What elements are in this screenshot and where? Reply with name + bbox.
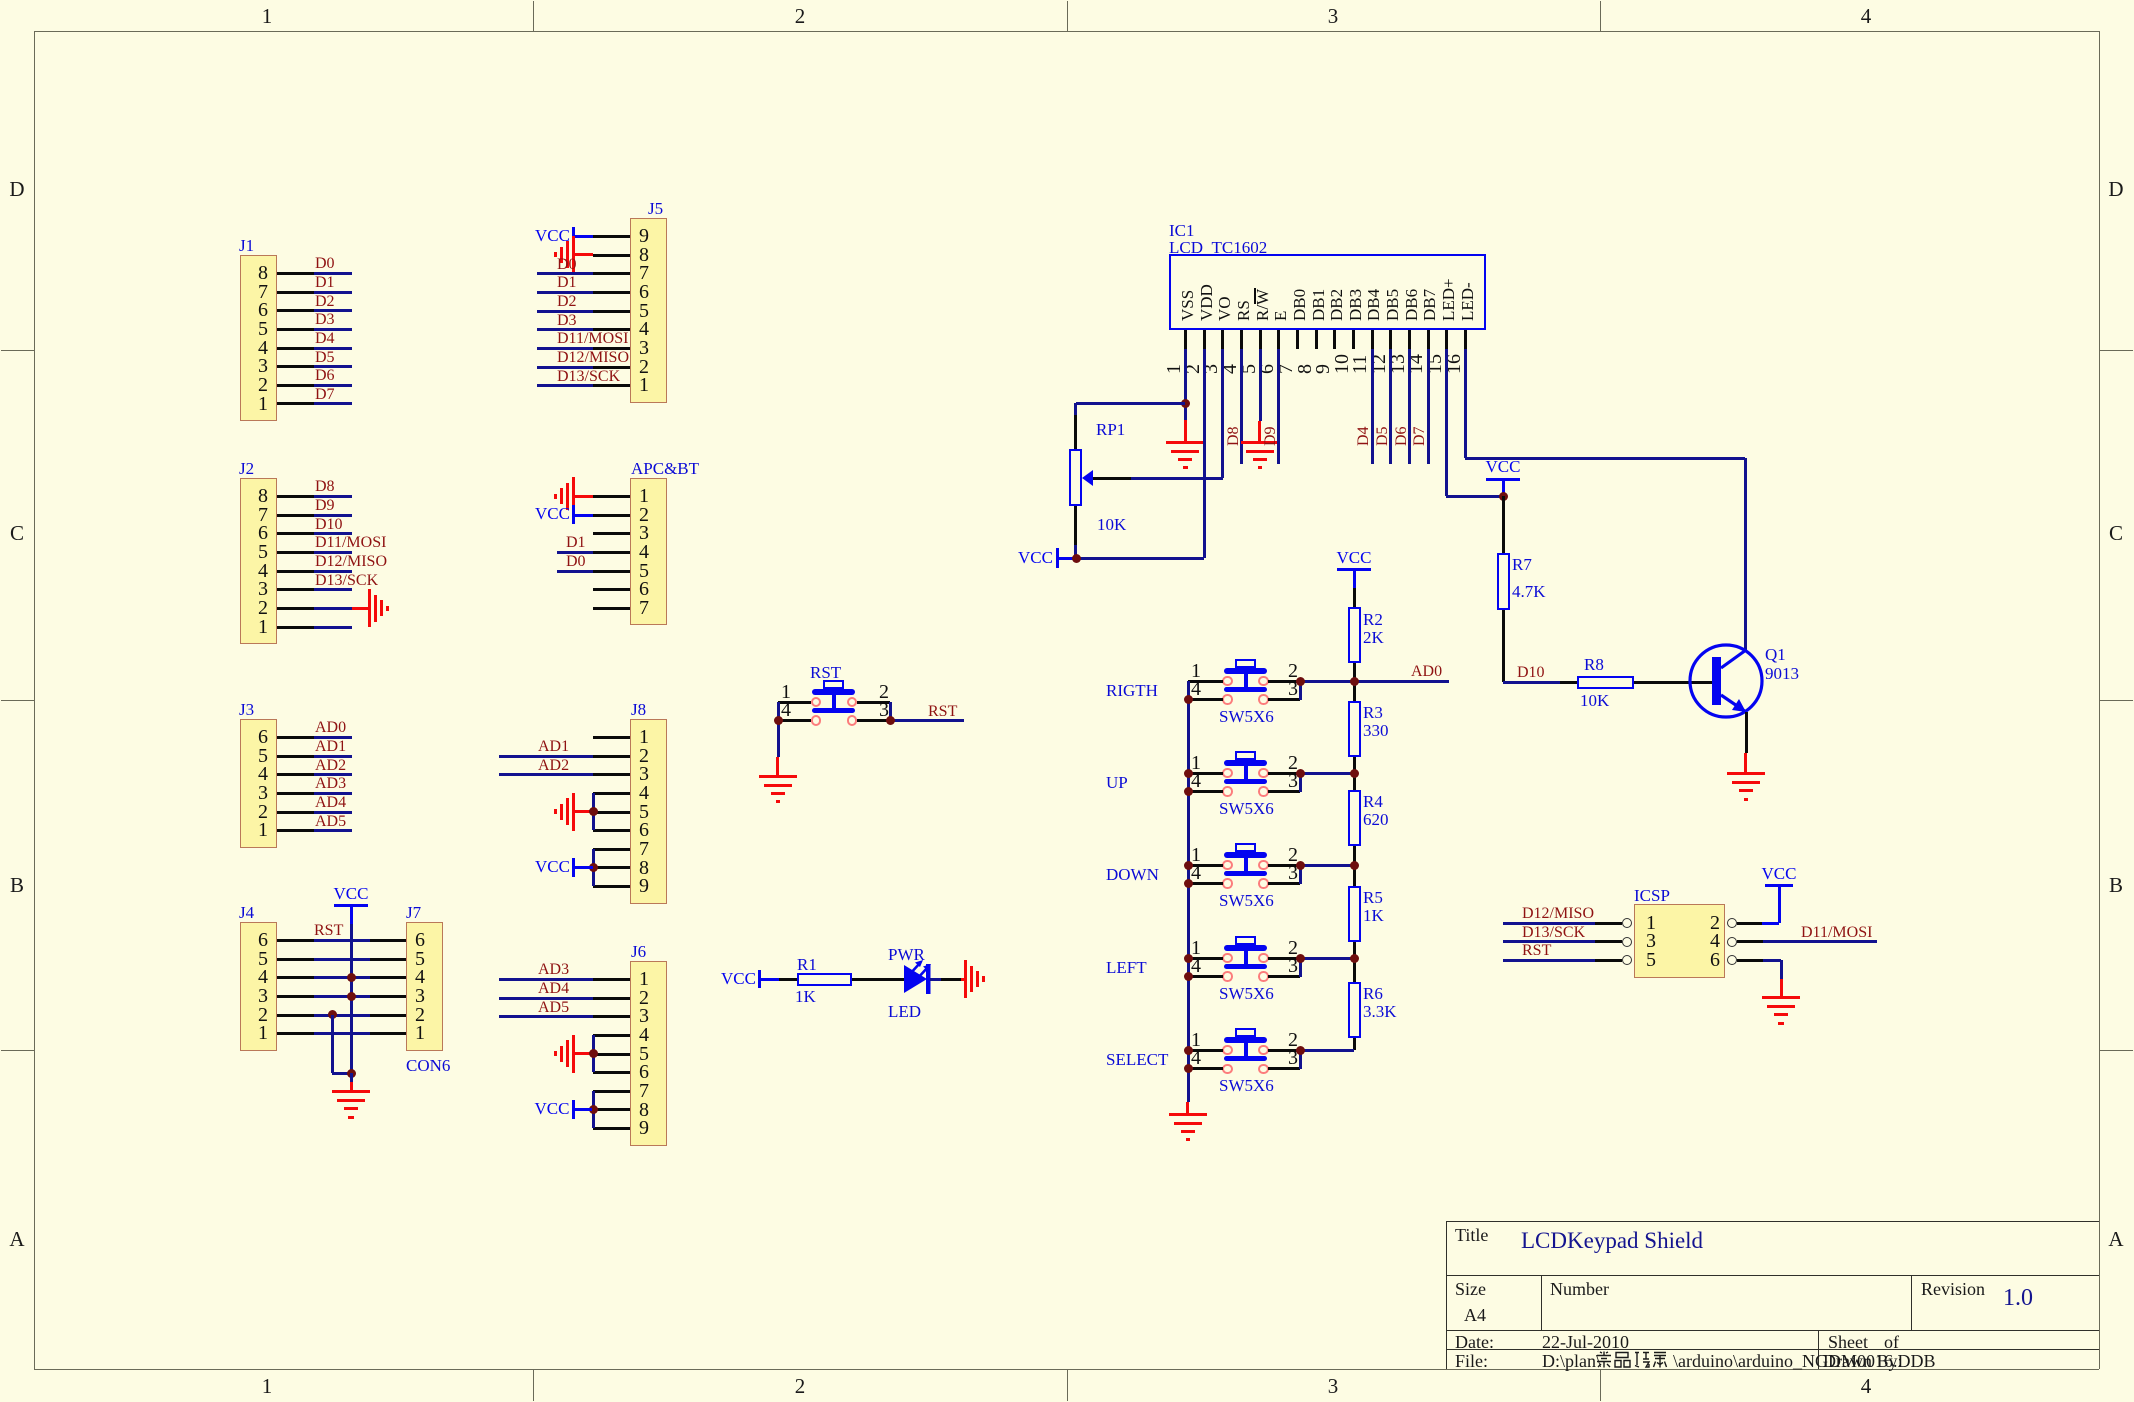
wire Q1 emitter to ground bbox=[0, 0, 1, 1]
junction (RST switch pin 4) bbox=[774, 716, 783, 725]
junction (left rail pin 4) bbox=[1184, 787, 1193, 796]
wire IC1 pin16 LED- to Q1 collector bbox=[0, 0, 1, 1]
junction (RIGTH pin 2) bbox=[1296, 677, 1305, 686]
wire LED to ground bbox=[0, 0, 1, 1]
wire net AD3 (J3 pin 3) bbox=[0, 0, 1, 1]
junction (left rail pin 1) bbox=[1184, 1046, 1193, 1055]
IC1 pin stubs bbox=[0, 0, 1, 1]
resistor R7 4.7K bbox=[0, 0, 1, 1]
pushbutton RST (SW5X6) bbox=[0, 0, 1, 1]
wire net D13/SCK (ICSP pin 3) bbox=[0, 0, 1, 1]
title block bbox=[0, 0, 1, 1]
power VCC (ICSP pin 2) bbox=[0, 0, 1, 1]
power VCC (RP1) bbox=[0, 0, 1, 1]
wire net AD4 (J6 pin 2) bbox=[0, 0, 1, 1]
junction (UP pin 2) bbox=[1296, 769, 1305, 778]
potentiometer RP1 10K bbox=[0, 0, 1, 1]
wire J8 pins 4-6 bracket to ground bbox=[0, 0, 1, 1]
wire net D2 (J1 pin 6) bbox=[0, 0, 1, 1]
junction (left rail pin 4) bbox=[1184, 879, 1193, 888]
connector APC&BT bbox=[0, 0, 1, 1]
wire RIGTH pins 1/4 to left rail bbox=[0, 0, 1, 1]
wire LEFT pins 2/3 to ladder bbox=[0, 0, 1, 1]
wire net D5 (J1 pin 3) bbox=[0, 0, 1, 1]
wire VCC rail vertical bbox=[0, 0, 1, 1]
wire net AD5 (J3 pin 1) bbox=[0, 0, 1, 1]
wire net D3 (J5 pin 4) bbox=[0, 0, 1, 1]
wire IC1 pin5 R/W to ground bbox=[0, 0, 1, 1]
junction (VSS / RP1 top) bbox=[1181, 399, 1190, 408]
junction (ladder node AD0 R3) bbox=[1350, 677, 1359, 686]
wire APC&BT pin 3 stub bbox=[0, 0, 1, 1]
connector ICSP bbox=[0, 0, 1, 1]
wire rail to ground bbox=[0, 0, 1, 1]
wire net D12/MISO (ICSP pin 1) bbox=[0, 0, 1, 1]
connector J5 bbox=[0, 0, 1, 1]
junction (row 2 branch) bbox=[328, 1010, 337, 1019]
wire net D5 (IC1 pin12) bbox=[0, 0, 1, 1]
wire R6 lower stub bbox=[0, 0, 1, 1]
connector J4 bbox=[0, 0, 1, 1]
junction (left rail pin 1) bbox=[1184, 954, 1193, 963]
wire DOWN pins 2/3 to ladder bbox=[0, 0, 1, 1]
junction (left rail pin 4) bbox=[1184, 695, 1193, 704]
resistor R4 620 bbox=[0, 0, 1, 1]
power VCC (J4/J7 rail) bbox=[0, 0, 1, 1]
wire net AD3 (J6 pin 1) bbox=[0, 0, 1, 1]
wire net AD0 bbox=[0, 0, 1, 1]
junction (rail / row 3) bbox=[347, 992, 356, 1001]
wire UP pins 2/3 to ladder bbox=[0, 0, 1, 1]
wire net RST (switch pins 2/3) bbox=[0, 0, 1, 1]
wire net AD1 (J8 pin 2) bbox=[0, 0, 1, 1]
wire J5 pin 9 to VCC bbox=[0, 0, 1, 1]
power VCC (J8 pins 7-9) bbox=[0, 0, 1, 1]
junction (ladder node AD0 R6) bbox=[1350, 954, 1359, 963]
junction (rail / branch) bbox=[347, 1069, 356, 1078]
wire net D0 (J1 pin 8) bbox=[0, 0, 1, 1]
connector J8 bbox=[0, 0, 1, 1]
ground GND (IC1 pin1) bbox=[0, 0, 1, 1]
resistor R3 330 bbox=[0, 0, 1, 1]
junction (ladder node AD0 R4) bbox=[1350, 769, 1359, 778]
wire net D4 (J1 pin 4) bbox=[0, 0, 1, 1]
wire J2 pin 2 to ground bbox=[0, 0, 1, 1]
resistor R5 1K bbox=[0, 0, 1, 1]
wire J4 pin 1 to J7 pin 1 bbox=[0, 0, 1, 1]
wire net D13/SCK (J2 pin 3) bbox=[0, 0, 1, 1]
wire ICSP pin 6 to ground bbox=[0, 0, 1, 1]
wire net D11/MOSI (J5 pin 3) bbox=[0, 0, 1, 1]
junction (left rail pin 1) bbox=[1184, 861, 1193, 870]
wire net D11/MOSI (ICSP pin 4) bbox=[0, 0, 1, 1]
wire ICSP pin 2 to VCC bbox=[0, 0, 1, 1]
wire net D9 (J2 pin 7) bbox=[0, 0, 1, 1]
junction (left rail pin 4) bbox=[1184, 972, 1193, 981]
ground GND (APC&BT pin 1) bbox=[0, 0, 1, 1]
wire net AD2 (J3 pin 4) bbox=[0, 0, 1, 1]
wire J8 pins 7-9 bracket to VCC bbox=[0, 0, 1, 1]
power VCC (R7 / LED+) bbox=[0, 0, 1, 1]
wire net D7 (IC1 pin14) bbox=[0, 0, 1, 1]
wire J6 pins 4-6 bracket to ground bbox=[0, 0, 1, 1]
connector J1 bbox=[0, 0, 1, 1]
junction (LEFT pin 2) bbox=[1296, 954, 1305, 963]
resistor R2 2K bbox=[0, 0, 1, 1]
resistor R6 3.3K bbox=[0, 0, 1, 1]
wire keypad left rail to ground bbox=[0, 0, 1, 1]
wire net D10 (J2 pin 6) bbox=[0, 0, 1, 1]
transistor Q1 9013 (NPN) bbox=[1680, 635, 1800, 765]
wire net D0 (APC&BT pin 5) bbox=[0, 0, 1, 1]
wire net D12/MISO (J2 pin 4) bbox=[0, 0, 1, 1]
wire net D1 (J5 pin 6) bbox=[0, 0, 1, 1]
wire net D1 (J1 pin 7) bbox=[0, 0, 1, 1]
wire net D11/MOSI (J2 pin 5) bbox=[0, 0, 1, 1]
wire J2 pin 1 stub bbox=[0, 0, 1, 1]
wire net D6 (J1 pin 2) bbox=[0, 0, 1, 1]
wire R5 lower stub bbox=[0, 0, 1, 1]
power VCC (keypad ladder) bbox=[0, 0, 1, 1]
wire net D1 (APC&BT pin 4) bbox=[0, 0, 1, 1]
wire net D4 (IC1 pin11) bbox=[0, 0, 1, 1]
junction (J6 pin 5) bbox=[589, 1049, 598, 1058]
connector J7 bbox=[0, 0, 1, 1]
connector J6 bbox=[0, 0, 1, 1]
wire SELECT pins 2/3 to ladder bbox=[0, 0, 1, 1]
wire APC&BT pin 2 to VCC bbox=[0, 0, 1, 1]
junction (ladder node AD0 R5) bbox=[1350, 861, 1359, 870]
wire R3 lower stub bbox=[0, 0, 1, 1]
pushbutton SELECT (SW5X6) bbox=[0, 0, 1, 1]
ground GND (ICSP pin 6) bbox=[0, 0, 1, 1]
wire net AD4 (J3 pin 2) bbox=[0, 0, 1, 1]
wire RP1 top to VSS node bbox=[0, 0, 1, 1]
pushbutton DOWN (SW5X6) bbox=[0, 0, 1, 1]
wire J8 pin 1 stub bbox=[0, 0, 1, 1]
junction (left rail pin 1) bbox=[1184, 769, 1193, 778]
ground GND (J2 pin 2) bbox=[0, 0, 1, 1]
pushbutton RIGTH (SW5X6) bbox=[0, 0, 1, 1]
junction (RST net) bbox=[886, 716, 895, 725]
wire net D0 (J5 pin 7) bbox=[0, 0, 1, 1]
wire net D3 (J1 pin 5) bbox=[0, 0, 1, 1]
wire DOWN pins 1/4 to left rail bbox=[0, 0, 1, 1]
ground GND (Q1 emitter) bbox=[0, 0, 1, 1]
wire net D6 (IC1 pin13) bbox=[0, 0, 1, 1]
wire RP1 bottom to VCC bbox=[0, 0, 1, 1]
ground GND (J8 pins 4-6) bbox=[0, 0, 1, 1]
wire row2 branch down bbox=[0, 0, 1, 1]
wire APC&BT pin 7 stub bbox=[0, 0, 1, 1]
junction (J6 pin 8) bbox=[589, 1105, 598, 1114]
wire J5 pin 8 to ground bbox=[0, 0, 1, 1]
power VCC (R1) bbox=[0, 0, 1, 1]
LED PWR bbox=[870, 944, 960, 1014]
wire net AD2 (J8 pin 3) bbox=[0, 0, 1, 1]
wire J4 pin 6 to J7 pin 6 net RST bbox=[0, 0, 1, 1]
power VCC (J5 pin 9) bbox=[0, 0, 1, 1]
wire net D10 (R7 to R8) bbox=[0, 0, 1, 1]
wire RIGTH pins 2/3 to ladder bbox=[0, 0, 1, 1]
wire net AD0 (J3 pin 6) bbox=[0, 0, 1, 1]
ground GND (J6 pins 4-6) bbox=[0, 0, 1, 1]
wire APC&BT pin 6 stub bbox=[0, 0, 1, 1]
wire net D13/SCK (J5 pin 1) bbox=[0, 0, 1, 1]
label CON6 (J7) bbox=[0, 0, 1, 1]
power VCC (J6 pins 7-9) bbox=[0, 0, 1, 1]
wire net D7 (J1 pin 1) bbox=[0, 0, 1, 1]
junction (SELECT pin 2) bbox=[1296, 1046, 1305, 1055]
wire net D2 (J5 pin 5) bbox=[0, 0, 1, 1]
pushbutton LEFT (SW5X6) bbox=[0, 0, 1, 1]
wire net RST (ICSP pin 5) bbox=[0, 0, 1, 1]
wire R1 to LED bbox=[0, 0, 1, 1]
wire IC1 pin2 VDD to VCC rail bbox=[0, 0, 1, 1]
wire J4 pin 3 to J7 pin 3 bbox=[0, 0, 1, 1]
wire IC1 pin1 VSS to ground / RP1 bbox=[0, 0, 1, 1]
wire R8 to Q1 base bbox=[0, 0, 1, 1]
wire J4 pin 5 to J7 pin 5 bbox=[0, 0, 1, 1]
junction (left rail pin 4) bbox=[1184, 1064, 1193, 1073]
wire IC1 pin3 VO to RP1 wiper bbox=[0, 0, 1, 1]
connector J2 bbox=[0, 0, 1, 1]
resistor R8 10K bbox=[0, 0, 1, 1]
wire J4 pin 4 to J7 pin 4 bbox=[0, 0, 1, 1]
pushbutton UP (SW5X6) bbox=[0, 0, 1, 1]
wire IC1 pin15 LED+ to VCC bbox=[0, 0, 1, 1]
wire APC&BT pin 1 to ground bbox=[0, 0, 1, 1]
ground GND (keypad rail) bbox=[0, 0, 1, 1]
junction (J8 pin 8) bbox=[589, 863, 598, 872]
resistor R1 1K bbox=[0, 0, 1, 1]
wire LEFT pins 1/4 to left rail bbox=[0, 0, 1, 1]
ground GND (J4/J7 rail) bbox=[0, 0, 1, 1]
ground GND (RST switch) bbox=[0, 0, 1, 1]
IC1 pin numbers 1-16 bbox=[0, 0, 1, 1]
junction (RP1 bottom / VCC rail) bbox=[1072, 554, 1081, 563]
wire net D12/MISO (J5 pin 2) bbox=[0, 0, 1, 1]
IC U1: IC1 LCD_TC1602 header bbox=[0, 0, 1, 1]
junction (VCC / LED+ / R7) bbox=[1499, 492, 1508, 501]
wire net D8 (J2 pin 8) bbox=[0, 0, 1, 1]
wire net D9 (IC1 pin6 E) bbox=[0, 0, 1, 1]
wire net AD5 (J6 pin 3) bbox=[0, 0, 1, 1]
connector J3 bbox=[0, 0, 1, 1]
IC1 pin names bbox=[0, 0, 1, 1]
junction (rail / row 4) bbox=[347, 973, 356, 982]
wire R2 to AD0 node bbox=[0, 0, 1, 1]
wire J6 pins 7-9 bracket to VCC bbox=[0, 0, 1, 1]
ground GND (J5 pin 8) bbox=[0, 0, 1, 1]
wire J4 pin 2 to J7 pin 2 bbox=[0, 0, 1, 1]
junction (J8 pin 5) bbox=[589, 807, 598, 816]
wire net D8 (IC1 pin4 RS) bbox=[0, 0, 1, 1]
wire SELECT pins 1/4 to left rail bbox=[0, 0, 1, 1]
junction (DOWN pin 2) bbox=[1296, 861, 1305, 870]
wire net AD1 (J3 pin 5) bbox=[0, 0, 1, 1]
wire RST switch pins 1/4 to ground bbox=[0, 0, 1, 1]
wire R4 lower stub bbox=[0, 0, 1, 1]
power VCC (APC&BT pin 2) bbox=[0, 0, 1, 1]
wire UP pins 1/4 to left rail bbox=[0, 0, 1, 1]
ground GND (LED) bbox=[0, 0, 1, 1]
ground GND (IC1 pin5) bbox=[0, 0, 1, 1]
